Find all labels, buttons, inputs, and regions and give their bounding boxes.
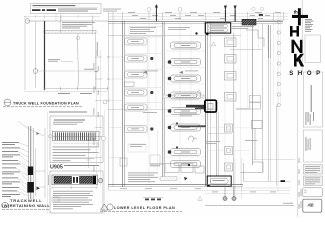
section right dim: [88, 133, 90, 168]
box7 sheet number: [303, 199, 322, 212]
note box title line: [33, 5, 76, 6]
svg-text:(W)RETAINING WALL: (W)RETAINING WALL: [2, 203, 50, 208]
detail box 1: [50, 116, 103, 163]
dim number marks top: [128, 12, 281, 19]
wall blobs: [28, 167, 33, 176]
box6: [303, 188, 323, 197]
thin grid verticals: [149, 12, 281, 186]
dark dashed bar: [32, 9, 56, 11]
logo H: [290, 26, 299, 37]
bottom dimension lines: [44, 88, 108, 90]
west wall pair: [122, 21, 124, 187]
page top text: [49, 112, 87, 113]
annotation text lines: [2, 142, 20, 197]
west wall details: [128, 144, 146, 152]
dimension line top: [24, 16, 100, 18]
right step outline: [246, 30, 264, 47]
east wall pair: [205, 22, 207, 186]
left grid bubble: [98, 178, 103, 183]
square footings column 3: [225, 38, 237, 171]
box1 barcode wall bar: [53, 131, 100, 141]
bold room top: [205, 23, 231, 33]
south wall double: [108, 184, 243, 186]
wall section lines: [29, 126, 36, 199]
col1 dark circles: [150, 57, 153, 131]
grid bubble mid: [33, 69, 38, 74]
page divider line: [46, 112, 48, 214]
top dark survey arrows: [155, 4, 237, 22]
short vertical from bold box: [233, 33, 235, 199]
small plan texts: [130, 26, 257, 166]
left dim text specks: [94, 63, 99, 172]
plan text block border: [129, 27, 163, 37]
wall hatch band: [44, 30, 96, 33]
top dim ticks: [113, 12, 284, 21]
small text annotations: [48, 22, 88, 61]
svg-text:TRUCK WELL FOUNDATION PLAN: TRUCK WELL FOUNDATION PLAN: [13, 101, 79, 105]
col2 cell grid: [166, 51, 205, 157]
svg-text:A18: A18: [307, 202, 314, 207]
title block left edge line: [301, 0, 303, 72]
detail page right edge: [104, 110, 106, 214]
right lower stepped wall: [241, 128, 264, 181]
ramp curve: [77, 33, 80, 87]
bold room bottom: [207, 176, 231, 186]
footings column 2: [171, 42, 201, 168]
footings column 1: [125, 38, 148, 133]
col1 cell grid: [125, 37, 164, 135]
box1 dim marks: [49, 135, 53, 139]
hatched strip mid: [163, 95, 204, 98]
vertical dim text: [96, 42, 99, 56]
pencil mark: [188, 136, 197, 142]
vertical wall dark: [44, 21, 46, 90]
logo N: [292, 40, 303, 53]
col1 footing text dashes: [131, 41, 139, 129]
detail box 2: [50, 171, 103, 213]
mid dark wall segment: [178, 125, 206, 127]
right area walls: [252, 24, 254, 165]
info box upper: [305, 35, 320, 63]
box2 wall bar: [52, 175, 98, 185]
title D triangle+circle: [101, 204, 109, 210]
top-right dark wall block: [242, 19, 256, 25]
logo small text: [305, 19, 314, 32]
box2 left dim: [48, 175, 50, 185]
second note cluster: [80, 22, 95, 25]
box1 lower text: [53, 147, 99, 162]
mid leader text: [84, 68, 94, 71]
bottom right dim dark dash: [243, 180, 290, 182]
grid stubs across west wall: [109, 57, 122, 158]
box1 header text: [54, 120, 85, 121]
svg-text:LOWER LEVEL FLOOR PLAN: LOWER LEVEL FLOOR PLAN: [114, 206, 175, 210]
box4 revision list: [303, 165, 322, 175]
col2 dark circles: [168, 60, 172, 154]
bottom hatch strip: [160, 177, 177, 181]
leader arrow mid: [143, 71, 147, 74]
small tick circles on left border: [107, 56, 109, 58]
right small squares: [250, 96, 261, 103]
top dimension lines: [108, 13, 288, 19]
bottom grid bubbles: [224, 186, 226, 197]
dim number marks bottom: [120, 188, 276, 192]
svg-text:U905: U905: [50, 165, 63, 171]
title A bubble: [4, 99, 11, 106]
top wall double line: [108, 20, 283, 22]
horizontal interior lines: [108, 35, 241, 37]
small triangles: [211, 42, 215, 46]
arrow triangles: [37, 187, 40, 190]
left dim column: [96, 50, 98, 186]
heavy detail marker box: [205, 100, 217, 112]
col2 footing text dashes: [181, 45, 190, 164]
logo K: [294, 54, 304, 67]
box2 paragraph: [53, 191, 93, 209]
lower-right corridor wall: [216, 112, 218, 176]
grid line w bubble: [27, 20, 108, 22]
top grid bubbles: [147, 8, 151, 12]
box1 edge bubble: [101, 136, 105, 140]
level line w dark band: [108, 109, 216, 111]
box2 dim line: [52, 187, 97, 189]
bottom border line: [205, 205, 294, 207]
leader lines: [16, 143, 28, 196]
dark wall pair right: [267, 25, 269, 58]
note text lines: [58, 9, 121, 12]
bottom dim lines: [108, 188, 290, 194]
break line: [18, 121, 44, 136]
info box main: [303, 72, 322, 127]
title block divider: [297, 70, 299, 217]
left border vertical: [107, 12, 109, 190]
logo T cross: [298, 8, 301, 25]
grid center dashes right: [205, 128, 250, 151]
right vertical dim with circles: [277, 14, 279, 192]
bottom rooms cluster: [165, 164, 204, 174]
center wall pair: [162, 22, 164, 180]
vertical lines: [25, 16, 96, 90]
box5 revision list: [303, 176, 322, 186]
note box: [31, 4, 102, 14]
rotated project text: [311, 85, 312, 112]
scale bar: [145, 199, 161, 201]
box3: [303, 130, 322, 162]
margin labels lower: [298, 158, 301, 209]
section dim vertical: [44, 128, 46, 198]
